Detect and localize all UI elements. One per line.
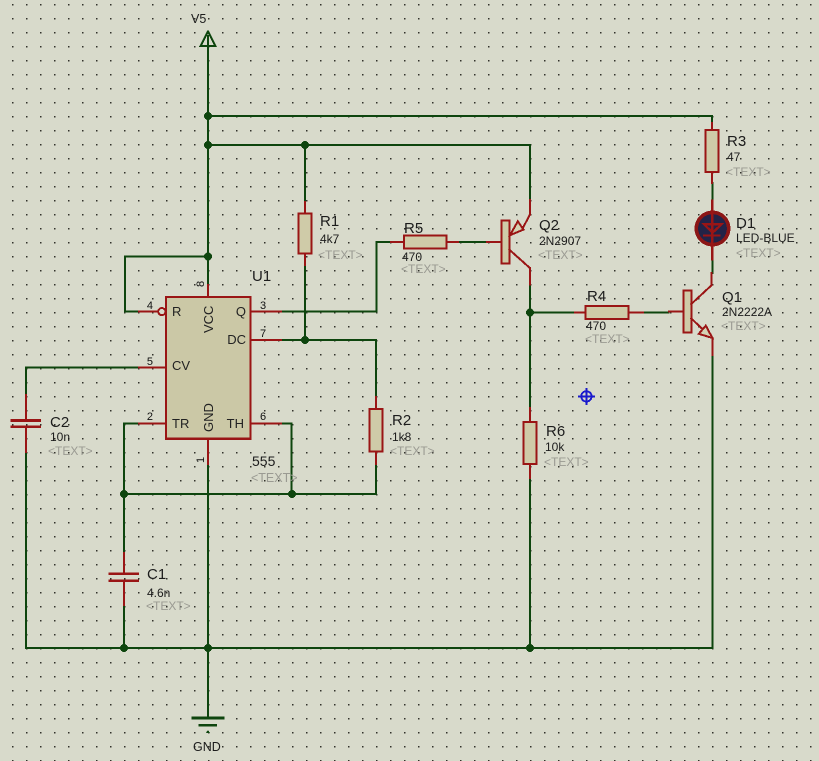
- svg-text:47: 47: [727, 150, 741, 164]
- pin 3 stub: [251, 311, 282, 313]
- origin marker: [579, 389, 594, 404]
- junction node at 124,494: [120, 490, 128, 498]
- svg-text:R6: R6: [546, 423, 565, 440]
- wire Q2 collector to node: [529, 284, 531, 313]
- svg-text:4.6n: 4.6n: [147, 586, 170, 600]
- svg-text:1k8: 1k8: [392, 430, 412, 444]
- svg-text:R4: R4: [587, 288, 606, 305]
- junction node at 124,648: [120, 644, 128, 652]
- wire TH pin6 down: [281, 424, 292, 494]
- svg-text:DC: DC: [227, 332, 246, 347]
- transistor Q1 NPN: [669, 273, 713, 355]
- svg-text:<TEXT>: <TEXT>: [736, 246, 781, 260]
- wire C1 top: [123, 494, 125, 553]
- svg-text:<TEXT>: <TEXT>: [318, 248, 363, 262]
- svg-text:<TEXT>: <TEXT>: [390, 444, 435, 458]
- wire CV pin5 to C2: [26, 368, 139, 395]
- wire R6 bottom: [529, 478, 531, 648]
- resistor R4 body: [586, 306, 629, 319]
- resistor R1 body: [299, 214, 312, 254]
- pin 7 stub: [251, 339, 282, 341]
- svg-text:<TEXT>: <TEXT>: [544, 455, 589, 469]
- svg-text:7: 7: [260, 328, 266, 340]
- capacitor C2: [12, 395, 40, 452]
- pin 8 stub: [207, 285, 209, 297]
- svg-text:1: 1: [195, 457, 207, 463]
- pin 4 stub with bubble: [139, 308, 165, 315]
- wire node to R6 top: [529, 313, 531, 408]
- resistor R2 body: [370, 409, 383, 452]
- svg-text:LED-BLUE: LED-BLUE: [736, 231, 795, 245]
- svg-text:R3: R3: [727, 133, 746, 150]
- svg-text:VCC: VCC: [201, 306, 216, 333]
- svg-text:8: 8: [195, 281, 207, 287]
- svg-text:10k: 10k: [545, 440, 565, 454]
- junction node at 208,145: [204, 141, 212, 149]
- LED D1: [696, 201, 728, 260]
- svg-text:TH: TH: [227, 416, 244, 431]
- svg-text:6: 6: [260, 411, 266, 423]
- junction node at 208,648: [204, 644, 212, 652]
- pin 1 stub: [207, 439, 209, 464]
- svg-text:R: R: [172, 304, 181, 319]
- svg-text:D1: D1: [736, 215, 755, 232]
- wire R4 right to Q1 base: [643, 312, 669, 314]
- junction node at 292,494: [288, 490, 296, 498]
- svg-text:2N2222A: 2N2222A: [722, 305, 772, 319]
- svg-text:R5: R5: [404, 220, 423, 237]
- svg-text:2N2907: 2N2907: [539, 234, 581, 248]
- wire R1 top: [304, 145, 306, 202]
- power terminal V5: [201, 32, 216, 47]
- svg-text:<TEXT>: <TEXT>: [401, 262, 446, 276]
- svg-text:GND: GND: [193, 740, 221, 754]
- resistor R6 body: [524, 422, 537, 464]
- wire D1 to Q1 collector: [711, 260, 713, 274]
- wire DC pin7 to R2 top: [281, 340, 376, 397]
- svg-text:4k7: 4k7: [320, 232, 340, 246]
- pin 6 stub: [251, 423, 282, 425]
- op IC U1 555 body: [166, 297, 251, 439]
- wire V5 stem down to pin8 junction: [207, 46, 209, 285]
- svg-text:Q2: Q2: [539, 217, 559, 234]
- pin 2 stub: [139, 423, 166, 425]
- svg-text:C2: C2: [50, 414, 69, 431]
- svg-text:V5: V5: [191, 12, 206, 26]
- junction node at 305,340: [301, 336, 309, 344]
- svg-text:2: 2: [147, 411, 153, 423]
- pin 5 stub: [139, 367, 166, 369]
- wire top rail y=116: [208, 116, 712, 123]
- svg-text:Q1: Q1: [722, 289, 742, 306]
- wire C1 bottom: [123, 605, 125, 648]
- svg-text:<TEXT>: <TEXT>: [251, 471, 298, 485]
- svg-text:<TEXT>: <TEXT>: [721, 319, 766, 333]
- junction node at 530,648: [526, 644, 534, 652]
- svg-text:<TEXT>: <TEXT>: [538, 248, 583, 262]
- svg-text:GND: GND: [201, 403, 216, 432]
- svg-text:4: 4: [147, 300, 153, 312]
- capacitor C1: [110, 553, 138, 605]
- wire Q output pin3 to R5: [281, 242, 391, 312]
- wire Q1 emitter down: [712, 355, 714, 648]
- wire R1 bottom to DC node: [304, 265, 306, 340]
- wire TR pin2 down: [124, 424, 139, 494]
- wire R2 bottom to node row y=494: [124, 464, 376, 494]
- junction node at 305,145: [301, 141, 309, 149]
- wire pin1 GND down: [207, 464, 209, 717]
- svg-text:10n: 10n: [50, 430, 70, 444]
- wire second rail y=145 to Q2 emitter: [208, 145, 530, 201]
- svg-text:C1: C1: [147, 566, 166, 583]
- svg-text:Q: Q: [236, 304, 246, 319]
- transistor Q2 PNP: [487, 200, 530, 285]
- ground symbol: [193, 718, 223, 733]
- svg-text:R1: R1: [320, 213, 339, 230]
- svg-text:470: 470: [586, 319, 606, 333]
- wire R3 bottom to D1: [711, 183, 713, 201]
- svg-text:<TEXT>: <TEXT>: [146, 599, 191, 613]
- svg-text:3: 3: [260, 300, 266, 312]
- svg-text:<TEXT>: <TEXT>: [48, 444, 93, 458]
- junction node at 208,256.5: [204, 253, 212, 261]
- pin names: [172, 304, 246, 432]
- svg-text:TR: TR: [172, 416, 189, 431]
- svg-text:555: 555: [252, 453, 276, 469]
- svg-text:CV: CV: [172, 358, 190, 373]
- resistor R3 body: [706, 130, 719, 172]
- svg-text:R2: R2: [392, 412, 411, 429]
- wire R5 right to Q2 base: [460, 241, 488, 243]
- svg-text:U1: U1: [252, 268, 271, 285]
- pin numbers: [147, 281, 266, 463]
- junction node at 208,116: [204, 112, 212, 120]
- svg-text:5: 5: [147, 356, 153, 368]
- resistor R5 body: [404, 236, 447, 249]
- svg-text:<TEXT>: <TEXT>: [726, 165, 771, 179]
- junction node at 530,312.5: [526, 309, 534, 317]
- wire pin4 reset to VCC node: [125, 257, 208, 312]
- wire C2 bottom + ground rail: [26, 452, 713, 648]
- svg-text:<TEXT>: <TEXT>: [585, 332, 630, 346]
- wire node to R4 left: [530, 312, 575, 314]
